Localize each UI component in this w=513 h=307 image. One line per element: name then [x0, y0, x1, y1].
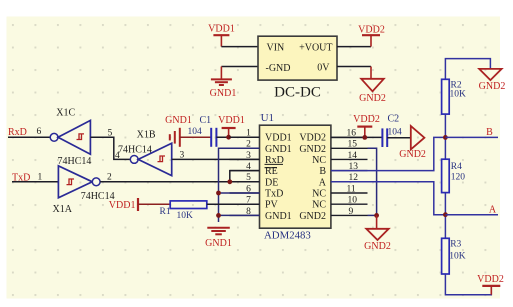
svg-text:VDD2: VDD2: [353, 114, 380, 125]
svg-text:74HC14: 74HC14: [58, 156, 92, 167]
wire R4 to R3: [444, 193, 446, 239]
U1 right pin numbers: [347, 129, 359, 217]
power VDD1 (at U1 pin1): [218, 115, 245, 137]
svg-text:VDD2: VDD2: [477, 274, 504, 285]
wire X1C input to X1B output: [90, 137, 130, 159]
wire C2 to GND2: [387, 137, 411, 139]
U1 left pin stubs: [230, 137, 260, 215]
svg-text:GND1: GND1: [210, 88, 237, 99]
op-amp X1C (74HC14 inverter, points left): [50, 107, 91, 166]
wire RxD to X1C: [8, 136, 50, 138]
svg-text:GND1: GND1: [265, 211, 292, 222]
svg-text:GND2: GND2: [359, 93, 386, 104]
wire R2 to R4: [444, 114, 446, 159]
junction (node A): [443, 212, 448, 217]
svg-text:VDD1: VDD1: [218, 115, 245, 126]
wire U1 pin9 to junction: [368, 214, 377, 216]
svg-text:GND2: GND2: [299, 211, 326, 222]
svg-text:B: B: [319, 166, 326, 177]
svg-text:X1C: X1C: [56, 107, 75, 118]
junction (node B): [443, 135, 448, 140]
svg-text:2: 2: [107, 173, 112, 183]
U1 right pin stubs: [331, 137, 368, 215]
svg-text:GND2: GND2: [479, 81, 506, 92]
op-amp U1 body (ADM2483): [260, 112, 331, 242]
svg-text:VIN: VIN: [267, 42, 285, 53]
power VDD2 (top, DC-DC output): [358, 24, 385, 46]
svg-text:-GND: -GND: [266, 63, 291, 74]
svg-text:VDD1: VDD1: [208, 24, 235, 35]
capacitor C2: [382, 114, 402, 147]
svg-text:U1: U1: [261, 112, 274, 124]
junction (VDD2/pin16): [362, 135, 367, 140]
svg-text:TxD: TxD: [265, 189, 283, 200]
junction (pin9/pin15): [374, 213, 379, 218]
svg-text:ADM2483: ADM2483: [264, 230, 311, 242]
svg-text:10: 10: [348, 196, 358, 206]
junction (pin8/GND1): [216, 213, 221, 218]
svg-text:10K: 10K: [450, 90, 467, 100]
wire GND1 to -GND: [221, 67, 258, 79]
svg-text:X1B: X1B: [137, 130, 156, 141]
svg-text:5: 5: [246, 173, 251, 183]
svg-text:GND1: GND1: [205, 238, 232, 249]
wire C1 to U1 pin1: [216, 136, 259, 138]
svg-text:NC: NC: [312, 200, 326, 211]
svg-text:DE: DE: [265, 177, 278, 188]
svg-text:104: 104: [188, 127, 203, 137]
wire X1B input to U1 pin3: [172, 158, 260, 160]
power VDD2 (at U1 pin16): [353, 114, 380, 137]
svg-text:0V: 0V: [317, 63, 330, 74]
DC-DC converter module: [258, 36, 337, 100]
RxD underline: [265, 163, 284, 165]
ground GND2 (below U1 pin9): [364, 215, 391, 252]
op-amp X1A (74HC14 inverter, points right): [53, 166, 115, 215]
wire U1 pin8 to GND1 vertical: [219, 214, 260, 216]
svg-text:9: 9: [349, 207, 354, 217]
junction (pin4/pin5): [227, 179, 232, 184]
wire U1 pin15 down: [368, 148, 377, 215]
power VDD1 (top, DC-DC input): [208, 24, 235, 47]
U1 right pin names: [299, 133, 326, 222]
svg-text:X1A: X1A: [53, 204, 73, 215]
ground GND2 (top right): [479, 69, 506, 92]
svg-text:VDD1: VDD1: [109, 200, 136, 211]
svg-text:14: 14: [348, 151, 358, 161]
U1 left pin names: [265, 133, 292, 222]
wire TxD to X1A: [12, 181, 58, 183]
wire R3 bottom to VDD2: [445, 274, 491, 295]
svg-text:GND2: GND2: [364, 241, 391, 252]
svg-text:C2: C2: [388, 114, 400, 125]
svg-text:NC: NC: [312, 189, 326, 200]
junction (pin6/GND1): [216, 191, 221, 196]
svg-text:120: 120: [451, 172, 466, 182]
svg-text:R4: R4: [451, 162, 462, 172]
wire U1 pin12 jog to A node: [331, 182, 446, 215]
wire node A to label: [445, 214, 498, 216]
wire X1A output to U1 pin5: [100, 181, 259, 183]
svg-text:10K: 10K: [177, 211, 194, 221]
svg-text:GND2: GND2: [399, 149, 426, 160]
svg-text:3: 3: [246, 151, 251, 161]
wire VDD1 to VIN: [221, 46, 258, 48]
resistor R1: [160, 201, 207, 221]
wire U1 pin4 jog to pin5: [230, 171, 260, 182]
resistor R3: [442, 238, 466, 274]
wire 0V to GND2: [337, 67, 371, 79]
svg-text:GND1: GND1: [265, 144, 292, 155]
svg-text:74HC14: 74HC14: [118, 145, 152, 156]
svg-text:DC-DC: DC-DC: [274, 85, 321, 101]
svg-text:GND1: GND1: [165, 115, 192, 126]
ground GND1 (below U1): [205, 228, 232, 249]
svg-text:1: 1: [246, 129, 251, 139]
ground GND2 (right of C2, rotated): [399, 126, 426, 160]
wire +VOUT to VDD2: [337, 46, 371, 48]
svg-text:VDD2: VDD2: [299, 133, 326, 144]
wire U1 pin13 jog to B node: [331, 137, 446, 170]
svg-text:+VOUT: +VOUT: [299, 42, 332, 53]
svg-text:6: 6: [37, 127, 42, 137]
svg-text:VDD1: VDD1: [265, 133, 292, 144]
wire U1 pin6 to GND1 vertical: [219, 192, 260, 194]
svg-text:R3: R3: [450, 239, 461, 249]
wire R2 top to GND2: [445, 59, 490, 80]
wire node B to label: [445, 136, 498, 138]
RE overline: [265, 167, 278, 169]
svg-text:VDD2: VDD2: [358, 24, 385, 35]
svg-text:B: B: [486, 127, 493, 138]
svg-text:RxD: RxD: [8, 127, 27, 138]
svg-text:104: 104: [388, 127, 403, 137]
power VDD2 (bottom right): [477, 274, 504, 295]
svg-text:GND2: GND2: [299, 144, 326, 155]
U1 left pin numbers: [246, 129, 251, 217]
svg-text:10K: 10K: [449, 252, 466, 262]
wire U1 pin2 to GND1 vertical: [219, 148, 260, 222]
svg-text:11: 11: [347, 184, 356, 194]
ground GND1 (below DC-DC): [210, 79, 237, 98]
wire U1 pin16 to C2: [331, 136, 382, 138]
svg-text:C1: C1: [200, 115, 212, 126]
ground GND1 (left of C1, rotated): [165, 115, 211, 147]
svg-text:A: A: [319, 177, 327, 188]
svg-text:A: A: [489, 204, 497, 215]
svg-text:PV: PV: [265, 200, 279, 211]
junction (VDD1 / pin1): [226, 135, 231, 140]
svg-text:3: 3: [180, 150, 185, 160]
wire R1 to U1 pin7: [207, 203, 260, 205]
resistor R2: [442, 79, 466, 114]
capacitor C1: [188, 115, 217, 147]
ground GND2 (below DC-DC 0V): [359, 79, 386, 104]
svg-text:R1: R1: [160, 207, 171, 217]
svg-text:NC: NC: [312, 155, 326, 166]
svg-text:15: 15: [348, 140, 358, 150]
resistor R4: [442, 159, 466, 192]
power VDD1 (at R1, rotated): [109, 198, 170, 211]
op-amp X1B (74HC14 inverter, points left): [118, 130, 172, 176]
svg-text:1: 1: [38, 172, 43, 182]
